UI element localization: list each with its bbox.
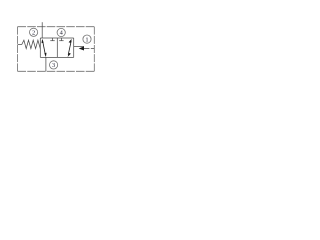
valve box top edge bbox=[40, 37, 73, 39]
port 1 line lower segment bbox=[84, 47, 89, 49]
port label circle 1 bbox=[83, 35, 91, 43]
port label circle 3 bbox=[50, 61, 58, 69]
port 1 line upper segment bbox=[74, 46, 84, 48]
envelope (dash-dot cartridge boundary) bbox=[18, 27, 95, 72]
port 2 line (external stub + valve box left edge) bbox=[41, 22, 43, 38]
blocked port T right box bbox=[59, 38, 63, 41]
valve box left edge bbox=[39, 38, 41, 57]
svg-text:2: 2 bbox=[32, 30, 35, 37]
valve box right edge bbox=[73, 38, 75, 57]
svg-text:1: 1 bbox=[85, 36, 88, 43]
port label circle 2 bbox=[29, 28, 37, 36]
right box flow arrow (double headed diagonal) bbox=[68, 39, 72, 57]
port label circle 4 bbox=[57, 28, 65, 36]
svg-text:3: 3 bbox=[52, 62, 55, 69]
blocked port T left box bbox=[50, 38, 54, 41]
port 3 riser bbox=[45, 57, 47, 71]
position divider bbox=[56, 38, 58, 57]
left box flow arrow (double headed diagonal) bbox=[42, 39, 47, 57]
valve box bottom edge bbox=[40, 56, 73, 58]
port 1 arrowhead bbox=[79, 46, 84, 50]
spring bbox=[18, 40, 41, 48]
